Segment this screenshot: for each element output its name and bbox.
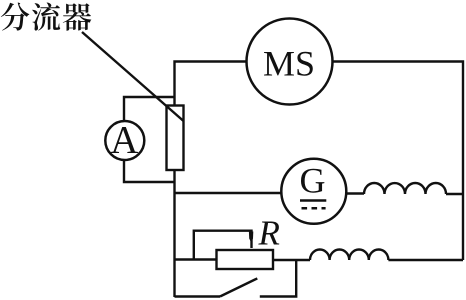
wire: ammeter branch bottom: [124, 160, 175, 182]
wire: L2 to bottom-right corner: [388, 259, 463, 261]
wire: top-left corner to MS: [175, 62, 247, 106]
wire: L1 to right vertical: [446, 193, 463, 195]
wire: left spine, shunt bottom to bottom-left corner: [173, 170, 175, 297]
DC symbol: dashed line under G: [302, 207, 326, 210]
rheostat tap wire: [194, 231, 252, 260]
inductor L1 (field winding): [364, 183, 446, 194]
wire: middle to generator G: [175, 192, 282, 194]
svg-text:MS: MS: [263, 44, 315, 84]
inductor L2 (armature winding): [310, 250, 388, 261]
DC symbol: solid line under G: [300, 199, 326, 202]
wire: ammeter branch top: [124, 97, 175, 122]
ammeter A circle: [105, 121, 144, 160]
wire: bottom-left segment to switch: [175, 295, 221, 297]
motor MS circle: [247, 19, 333, 105]
wire: rheostat right lead: [273, 259, 310, 261]
generator G circle: [281, 159, 346, 224]
resistor: shunt body: [167, 106, 184, 171]
wire: MS right to top-right corner and right vertical: [333, 62, 464, 261]
wire: G to field coil: [346, 192, 364, 194]
svg-text:A: A: [110, 119, 138, 162]
rheostat wiper arrowhead: [249, 232, 253, 243]
svg-text:R: R: [258, 214, 280, 253]
label 分流器 (shunt): [1, 3, 30, 31]
wire: switch right segment: [260, 260, 296, 297]
switch S blade: [220, 278, 257, 296]
wire: rheostat left lead: [175, 258, 217, 260]
svg-text:G: G: [300, 161, 326, 201]
rheostat R body: [217, 250, 274, 269]
leader line from label to shunt resistor: [82, 32, 184, 121]
